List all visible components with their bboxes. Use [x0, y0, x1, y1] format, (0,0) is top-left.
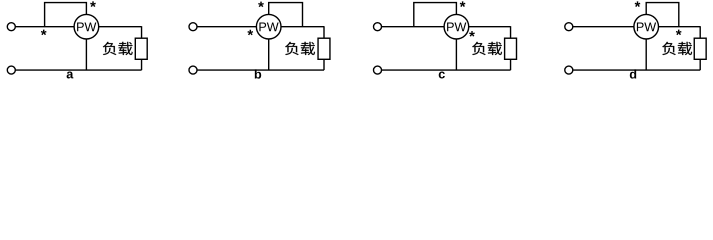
polarity mark * voltage coil (b) [258, 2, 264, 8]
wattmeter PW (b) [256, 14, 281, 39]
terminal: bottom-left input (c) [374, 66, 382, 74]
wire: load bottom drop (d) [699, 59, 701, 70]
wire: top line source to load corner (b) [197, 26, 324, 28]
wire: bottom return line (b) [197, 69, 324, 71]
wire: PW bottom terminal down (d) [645, 27, 647, 70]
wire: drop into load (b) [323, 26, 325, 38]
wire: bottom return line (c) [382, 69, 511, 71]
wire: top line source to load corner (c) [382, 26, 511, 28]
sub-figure label a [67, 72, 74, 79]
wire: PW bottom terminal down (a) [85, 27, 87, 70]
wire: load bottom drop (c) [510, 59, 512, 70]
value label 负载 (b) [285, 42, 315, 55]
wire: PW bottom terminal down (c) [455, 27, 457, 70]
wire: PW bottom terminal down (b) [268, 27, 270, 70]
value label 负载 (d) [662, 42, 692, 55]
wattmeter PW (a) [74, 14, 99, 39]
terminal: bottom-left input (d) [565, 66, 573, 74]
terminal: top-left input (c) [374, 23, 382, 31]
sub-figure label d [630, 69, 636, 78]
sub-figure label c [439, 72, 445, 79]
polarity mark * current coil (d) [676, 30, 682, 36]
wire: voltage-coil loop branch to PW top (c) [414, 3, 457, 27]
wire: drop into load (c) [510, 26, 512, 38]
value label 负载 (c) [472, 42, 502, 55]
wire: load bottom drop (b) [323, 59, 325, 70]
polarity mark * voltage coil (a) [90, 1, 96, 7]
wire: bottom return line (d) [573, 69, 700, 71]
wire: drop into load (a) [141, 26, 143, 38]
wire: voltage-coil loop PW top to line (d) [646, 3, 679, 27]
load resistor rectangle (d) [694, 38, 706, 59]
polarity mark * current coil (a) [41, 30, 47, 36]
terminal: bottom-left input (a) [7, 66, 15, 74]
load resistor rectangle (a) [135, 38, 147, 59]
wire: voltage-coil loop PW top to line (b) [269, 3, 303, 27]
polarity mark * voltage coil (c) [460, 1, 466, 7]
terminal: top-left input (a) [7, 23, 15, 31]
polarity mark * current coil (b) [247, 30, 253, 36]
load resistor rectangle (c) [505, 38, 517, 59]
polarity mark * current coil (c) [469, 31, 475, 37]
wire: top line source to load corner (a) [16, 26, 142, 28]
value label 负载 (a) [103, 42, 133, 55]
wire: drop into load (d) [699, 26, 701, 38]
wire: top line source to load corner (d) [573, 26, 700, 28]
wire: load bottom drop (a) [141, 59, 143, 70]
load resistor rectangle (b) [318, 38, 330, 59]
wattmeter PW (c) [444, 14, 469, 39]
terminal: bottom-left input (b) [189, 66, 197, 74]
wattmeter PW (d) [634, 14, 659, 39]
terminal: top-left input (b) [189, 23, 197, 31]
polarity mark * voltage coil (d) [635, 1, 641, 7]
wire: voltage-coil loop branch to PW top (a) [45, 3, 87, 27]
sub-figure label b [255, 69, 261, 78]
terminal: top-left input (d) [565, 23, 573, 31]
wire: bottom return line (a) [16, 69, 142, 71]
